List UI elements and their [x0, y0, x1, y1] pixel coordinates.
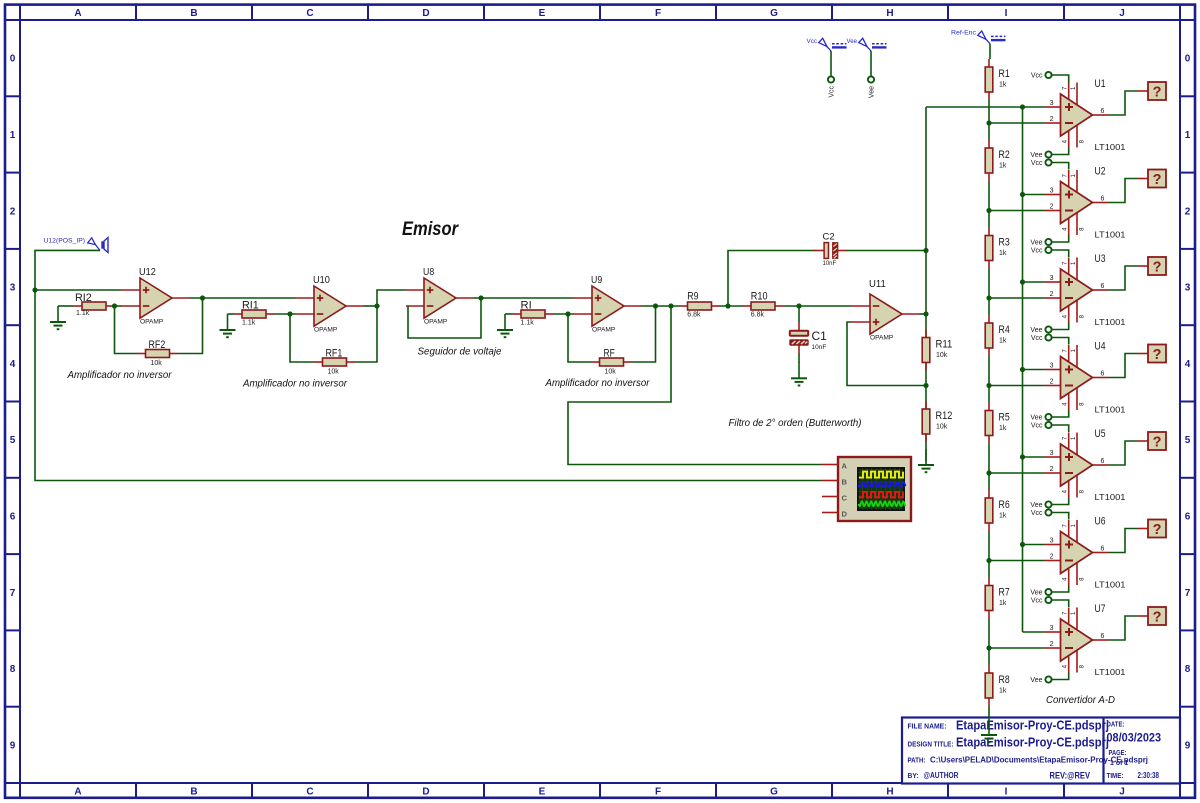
svg-text:?: ?	[1153, 609, 1162, 625]
node A junction	[32, 287, 37, 292]
op-amp U8	[406, 266, 473, 326]
svg-text:?: ?	[1153, 84, 1162, 100]
svg-text:Amplificador no inversor: Amplificador no inversor	[242, 378, 347, 390]
svg-text:U10: U10	[313, 274, 330, 286]
svg-text:10k: 10k	[151, 360, 163, 367]
terminal Vee U5	[1030, 501, 1051, 509]
pin scope B	[822, 480, 838, 482]
resistor R6	[985, 490, 1010, 531]
svg-text:6.8k: 6.8k	[751, 312, 765, 319]
svg-text:1k: 1k	[999, 82, 1007, 89]
svg-text:8: 8	[1080, 664, 1086, 668]
svg-text:1.1k: 1.1k	[242, 320, 256, 327]
terminal Vcc U4	[1031, 334, 1052, 342]
svg-text:2: 2	[1050, 204, 1054, 211]
junction RI2/RF2	[112, 303, 117, 308]
capacitor C2	[814, 232, 847, 267]
op-amp U3 (LT1001)	[1045, 253, 1127, 327]
op-amp U10	[296, 274, 363, 334]
pin probe U6	[1138, 528, 1148, 530]
wire bus to U2 +	[1023, 194, 1045, 196]
svg-text:RF: RF	[604, 348, 615, 360]
svg-text:4: 4	[1185, 359, 1191, 370]
wire RI to U9 -	[554, 313, 575, 315]
svg-text:PAGE:: PAGE:	[1109, 750, 1127, 757]
svg-text:OPAMP: OPAMP	[314, 327, 338, 334]
svg-text:1k: 1k	[999, 513, 1007, 520]
svg-text:1: 1	[1071, 524, 1077, 528]
svg-text:1: 1	[1071, 174, 1077, 178]
wire U3 output to probe	[1109, 266, 1139, 290]
wire U9 out to R9	[641, 305, 679, 307]
wire Vcc to U3 pin7	[1052, 250, 1069, 257]
svg-text:5: 5	[1185, 435, 1191, 446]
wire Vcc to U5 pin7	[1052, 425, 1069, 432]
svg-text:2: 2	[1050, 641, 1054, 648]
svg-text:BY:: BY:	[908, 773, 919, 780]
wire Vee to U6 pin4	[1052, 585, 1069, 592]
svg-text:Ref-Enc: Ref-Enc	[951, 30, 977, 37]
svg-text:8: 8	[1185, 664, 1191, 675]
terminal Vee	[868, 76, 876, 98]
pin probe U7	[1138, 615, 1148, 617]
svg-text:Convertidor A-D: Convertidor A-D	[1046, 694, 1115, 706]
svg-text:B: B	[842, 477, 848, 486]
svg-text:4: 4	[1063, 139, 1069, 143]
svg-text:6: 6	[1101, 283, 1105, 290]
wire R10 to U11 -	[784, 305, 853, 307]
svg-text:6: 6	[1101, 546, 1105, 553]
wire Vcc to U2 pin7	[1052, 163, 1069, 170]
svg-text:RF1: RF1	[326, 348, 343, 360]
resistor R12	[922, 401, 952, 442]
junction bus U3	[1020, 279, 1025, 284]
wire RF to U9 out	[632, 306, 656, 362]
svg-text:3: 3	[1050, 363, 1054, 370]
wire Vee to U4 pin4	[1052, 410, 1069, 417]
junction C2/feedback	[923, 248, 928, 253]
junction U8 out	[478, 295, 483, 300]
svg-text:A: A	[74, 8, 81, 19]
svg-text:Vcc: Vcc	[829, 86, 836, 98]
junction U9 out	[653, 303, 658, 308]
svg-text:2: 2	[1050, 291, 1054, 298]
svg-text:?: ?	[1153, 434, 1162, 450]
wire U11 out	[919, 313, 926, 315]
svg-text:Vcc: Vcc	[1031, 160, 1043, 167]
svg-text:C1: C1	[812, 329, 828, 343]
svg-text:C: C	[306, 8, 313, 19]
svg-text:Vcc: Vcc	[1031, 423, 1043, 430]
svg-text:J: J	[1119, 787, 1125, 798]
svg-text:OPAMP: OPAMP	[424, 319, 448, 326]
junction U12 out	[200, 295, 205, 300]
wire ground to RI	[505, 313, 513, 315]
svg-text:8: 8	[1080, 577, 1086, 581]
op-amp U7 (LT1001)	[1045, 603, 1127, 677]
svg-text:7: 7	[1185, 588, 1191, 599]
svg-text:RF2: RF2	[149, 339, 166, 351]
svg-text:DATE:: DATE:	[1107, 722, 1125, 729]
svg-text:U8: U8	[423, 266, 434, 278]
junction ladder U7	[986, 645, 991, 650]
svg-text:9: 9	[10, 740, 16, 751]
svg-text:8: 8	[1080, 489, 1086, 493]
resistor RF	[591, 348, 632, 376]
svg-text:10k: 10k	[328, 369, 340, 376]
svg-text:1: 1	[10, 130, 16, 141]
wire U4 output to probe	[1109, 354, 1139, 378]
svg-text:U9: U9	[591, 274, 602, 286]
svg-text:R8: R8	[999, 674, 1010, 686]
resistor R9	[679, 291, 720, 319]
svg-text:Vcc: Vcc	[1031, 598, 1043, 605]
svg-text:08/03/2023: 08/03/2023	[1107, 733, 1162, 745]
svg-text:Vcc: Vcc	[807, 38, 818, 45]
wire U8 out to U9 +	[473, 297, 574, 299]
svg-text:C: C	[842, 493, 848, 502]
terminal Vcc U5	[1031, 422, 1052, 430]
op-amp U1 (LT1001)	[1045, 78, 1127, 152]
svg-text:10nF: 10nF	[812, 344, 827, 351]
svg-text:Vee: Vee	[1030, 327, 1042, 334]
svg-text:I: I	[1005, 8, 1008, 19]
resistor R2	[985, 140, 1010, 181]
svg-text:R2: R2	[999, 149, 1010, 161]
pin scope C	[822, 496, 838, 498]
wire bus to U7 +	[1023, 631, 1045, 633]
junction ladder U5	[986, 470, 991, 475]
resistor RI2	[74, 292, 115, 317]
svg-text:1k: 1k	[999, 425, 1007, 432]
power terminal Ref-Enc	[951, 30, 1006, 44]
svg-text:3: 3	[1050, 450, 1054, 457]
svg-text:OPAMP: OPAMP	[140, 319, 164, 326]
terminal Vee U1	[1030, 151, 1051, 159]
svg-text:2: 2	[1050, 554, 1054, 561]
probe ?3	[1148, 257, 1166, 275]
junction bus top	[1020, 104, 1025, 109]
svg-text:5: 5	[10, 435, 16, 446]
svg-text:PATH:: PATH:	[908, 758, 926, 765]
terminal Vcc U1	[1031, 72, 1052, 80]
svg-text:RI1: RI1	[242, 300, 259, 312]
svg-text:1k: 1k	[999, 250, 1007, 257]
wire RI2 to U12 -	[115, 305, 123, 307]
svg-text:4: 4	[10, 359, 16, 370]
op-amp U11	[852, 278, 919, 342]
svg-text:D: D	[842, 509, 848, 518]
svg-text:U11: U11	[869, 278, 886, 290]
wire RF2 to U12 out	[178, 298, 203, 354]
junction C1 tap	[796, 303, 801, 308]
svg-text:0: 0	[10, 54, 16, 65]
wire RI to RF	[568, 314, 591, 362]
ground R12	[918, 449, 934, 472]
svg-text:LT1001: LT1001	[1095, 581, 1127, 590]
resistor R10	[743, 291, 784, 319]
wire RI1 to RF1	[290, 314, 314, 362]
svg-text:1: 1	[1185, 130, 1191, 141]
ground ladder	[981, 735, 997, 742]
wire R9 to R10	[720, 305, 743, 307]
wire ladder to U4 -	[989, 385, 1045, 387]
svg-text:LT1001: LT1001	[1095, 318, 1127, 327]
svg-text:Seguidor de voltaje: Seguidor de voltaje	[418, 346, 502, 358]
svg-text:EtapaEmisor-Proy-CE.pdsprj: EtapaEmisor-Proy-CE.pdsprj	[956, 718, 1109, 733]
wire U9 out to scope A	[568, 306, 822, 465]
svg-text:Vee: Vee	[847, 38, 858, 45]
svg-text:3: 3	[1050, 275, 1054, 282]
svg-text:H: H	[886, 787, 893, 798]
svg-text:4: 4	[1063, 664, 1069, 668]
wire bus to U4 +	[1023, 369, 1045, 371]
svg-text:LT1001: LT1001	[1095, 493, 1127, 502]
wire Vee to U7 pin4	[1052, 673, 1069, 680]
svg-text:OPAMP: OPAMP	[870, 335, 894, 342]
wire U5 output to probe	[1109, 441, 1139, 465]
op-amp U9	[574, 274, 641, 334]
wire Vcc to U7 pin7	[1052, 600, 1069, 607]
wire U10 out to U8 +	[377, 290, 406, 306]
svg-text:LT1001: LT1001	[1095, 406, 1127, 415]
pin scope A	[822, 464, 838, 466]
wire U10 out	[363, 305, 377, 307]
svg-text:Vee: Vee	[1030, 677, 1042, 684]
power terminal Vcc	[807, 38, 847, 51]
svg-text:1: 1	[1071, 436, 1077, 440]
svg-text:3: 3	[10, 283, 16, 294]
wire U12 out to U10 +	[189, 297, 296, 299]
wire Vcc terminal	[830, 51, 832, 76]
wire ladder to U6 -	[989, 560, 1045, 562]
wire input to U12 +	[35, 289, 122, 291]
oscilloscope	[838, 457, 911, 521]
svg-text:LT1001: LT1001	[1095, 143, 1127, 152]
pin probe U3	[1138, 265, 1148, 267]
junction RI/RF	[565, 311, 570, 316]
wire Vcc to U4 pin7	[1052, 338, 1069, 345]
svg-text:LT1001: LT1001	[1095, 231, 1127, 240]
svg-text:Vee: Vee	[1030, 590, 1042, 597]
svg-text:A: A	[74, 787, 81, 798]
svg-text:Vcc: Vcc	[1031, 248, 1043, 255]
resistor R11	[922, 330, 952, 371]
svg-text:U1: U1	[1095, 78, 1106, 90]
svg-text:1k: 1k	[999, 688, 1007, 695]
wire bus to U5 +	[1023, 456, 1045, 458]
svg-text:U12(POS_IP): U12(POS_IP)	[44, 238, 86, 245]
svg-text:6.8k: 6.8k	[687, 312, 701, 319]
svg-text:Filtro de 2° orden (Butterwort: Filtro de 2° orden (Butterworth)	[729, 417, 862, 429]
wire C1 to ground	[798, 354, 800, 363]
svg-text:7: 7	[1063, 349, 1069, 353]
terminal Vee U3	[1030, 326, 1051, 334]
svg-text:EtapaEmisor-Proy-CE.pdsprj: EtapaEmisor-Proy-CE.pdsprj	[956, 735, 1109, 750]
svg-text:U5: U5	[1095, 428, 1106, 440]
svg-text:U2: U2	[1095, 166, 1106, 178]
svg-text:U12: U12	[139, 266, 156, 278]
svg-text:U4: U4	[1095, 341, 1106, 353]
svg-text:U7: U7	[1095, 603, 1106, 615]
probe ?5	[1148, 432, 1166, 450]
svg-text:I: I	[1005, 787, 1008, 798]
svg-text:6: 6	[1101, 196, 1105, 203]
wire ladder to U2 -	[989, 210, 1045, 212]
resistor R3	[985, 228, 1010, 269]
svg-text:A: A	[842, 461, 848, 470]
svg-text:R4: R4	[999, 324, 1010, 336]
svg-text:Vee: Vee	[1030, 240, 1042, 247]
wire bus to U3 +	[1023, 281, 1045, 283]
svg-text:Emisor: Emisor	[402, 219, 459, 240]
probe ?7	[1148, 607, 1166, 625]
junction scope tap	[668, 303, 673, 308]
junction ladder U3	[986, 295, 991, 300]
svg-text:3: 3	[1050, 538, 1054, 545]
svg-text:F: F	[655, 787, 661, 798]
wire RI1 to U10 -	[275, 313, 297, 315]
resistor RI	[513, 300, 554, 327]
resistor R8	[985, 665, 1010, 706]
svg-text:F: F	[655, 8, 661, 19]
svg-text:8: 8	[1080, 402, 1086, 406]
svg-text:7: 7	[1063, 436, 1069, 440]
svg-text:?: ?	[1153, 259, 1162, 275]
junction feedback/R11-R12	[923, 383, 928, 388]
svg-text:C2: C2	[823, 232, 835, 243]
svg-text:2: 2	[1185, 206, 1191, 217]
wire U8 feedback	[408, 298, 481, 338]
junction U11 out	[923, 311, 928, 316]
svg-text:6: 6	[1101, 371, 1105, 378]
svg-text:7: 7	[1063, 524, 1069, 528]
svg-text:Vee: Vee	[1030, 502, 1042, 509]
svg-text:4: 4	[1063, 489, 1069, 493]
wire Vcc to U1 pin7	[1052, 75, 1069, 83]
svg-text:4: 4	[1063, 227, 1069, 231]
svg-text:C: C	[306, 787, 313, 798]
wire Vee to U1 pin4	[1052, 148, 1069, 155]
svg-text:B: B	[190, 787, 197, 798]
svg-text:6: 6	[1101, 108, 1105, 115]
wire Vee to U5 pin4	[1052, 498, 1069, 505]
svg-text:7: 7	[1063, 611, 1069, 615]
op-amp U5 (LT1001)	[1045, 428, 1127, 502]
svg-text:0: 0	[1185, 54, 1191, 65]
svg-text:@AUTHOR: @AUTHOR	[924, 771, 959, 780]
junction bus U2	[1020, 192, 1025, 197]
junction ladder U1	[986, 120, 991, 125]
input terminal U12(POS_IP)	[44, 238, 109, 253]
svg-text:FILE NAME:: FILE NAME:	[908, 724, 947, 731]
svg-text:H: H	[886, 8, 893, 19]
wire signal bus	[1022, 107, 1024, 632]
resistor R1	[985, 59, 1010, 100]
probe ?1	[1148, 82, 1166, 100]
svg-text:2:30:38: 2:30:38	[1138, 771, 1160, 780]
svg-text:G: G	[770, 787, 778, 798]
wire ground to RI2	[58, 305, 74, 307]
wire Vee terminal	[870, 51, 872, 76]
probe ?2	[1148, 170, 1166, 188]
svg-text:7: 7	[1063, 86, 1069, 90]
svg-text:Vee: Vee	[869, 86, 876, 98]
svg-text:3: 3	[1050, 188, 1054, 195]
svg-text:6: 6	[1101, 633, 1105, 640]
svg-text:G: G	[770, 8, 778, 19]
svg-text:3: 3	[1050, 625, 1054, 632]
svg-text:REV:@REV: REV:@REV	[1050, 771, 1091, 781]
ground RI	[497, 314, 513, 337]
svg-text:R9: R9	[687, 291, 698, 303]
svg-text:RI2: RI2	[75, 292, 92, 304]
wire RF1 to U10 out	[355, 306, 377, 362]
svg-text:R7: R7	[999, 587, 1010, 599]
svg-text:8: 8	[1080, 139, 1086, 143]
svg-text:?: ?	[1153, 347, 1162, 363]
terminal Vee U4	[1030, 414, 1051, 422]
svg-text:R5: R5	[999, 412, 1010, 424]
wire U1 output to probe	[1109, 91, 1139, 115]
resistor RF1	[314, 348, 355, 376]
svg-text:R6: R6	[999, 499, 1010, 511]
svg-text:1 of 1: 1 of 1	[1110, 760, 1128, 767]
svg-text:7: 7	[1063, 261, 1069, 265]
svg-text:8: 8	[1080, 314, 1086, 318]
svg-text:6: 6	[1185, 511, 1191, 522]
pin probe U2	[1138, 178, 1148, 180]
svg-text:1.1k: 1.1k	[76, 310, 90, 317]
junction bus U6	[1020, 542, 1025, 547]
wire ladder to U7 -	[989, 647, 1045, 649]
svg-text:Vcc: Vcc	[1031, 73, 1043, 80]
svg-text:LT1001: LT1001	[1095, 668, 1127, 677]
svg-text:1: 1	[1071, 349, 1077, 353]
svg-text:?: ?	[1153, 522, 1162, 538]
terminal Vcc U7	[1031, 597, 1052, 605]
junction ladder U4	[986, 383, 991, 388]
svg-text:R3: R3	[999, 237, 1010, 249]
terminal Vee U6	[1030, 589, 1051, 597]
terminal Vcc U6	[1031, 509, 1052, 517]
svg-text:J: J	[1119, 8, 1125, 19]
terminal Vcc U3	[1031, 247, 1052, 255]
wire ground to RI1	[228, 313, 234, 315]
svg-text:R12: R12	[936, 410, 953, 422]
junction RI1/RF1	[287, 311, 292, 316]
svg-text:Vee: Vee	[1030, 415, 1042, 422]
svg-text:7: 7	[1063, 174, 1069, 178]
wire U2 output to probe	[1109, 179, 1139, 203]
op-amp U12	[122, 266, 189, 326]
terminal Vcc	[828, 76, 836, 97]
probe ?4	[1148, 345, 1166, 363]
resistor R7	[985, 578, 1010, 619]
svg-text:3: 3	[1185, 283, 1191, 294]
ground RI2	[50, 306, 66, 329]
svg-text:E: E	[539, 787, 546, 798]
svg-text:U6: U6	[1095, 516, 1106, 528]
probe ?6	[1148, 520, 1166, 538]
svg-text:OPAMP: OPAMP	[592, 327, 616, 334]
wire ladder to U5 -	[989, 472, 1045, 474]
svg-text:8: 8	[10, 664, 16, 675]
svg-text:10k: 10k	[605, 369, 617, 376]
svg-text:B: B	[190, 8, 197, 19]
svg-text:Amplificador no inversor: Amplificador no inversor	[545, 377, 650, 389]
resistor R4	[985, 315, 1010, 356]
